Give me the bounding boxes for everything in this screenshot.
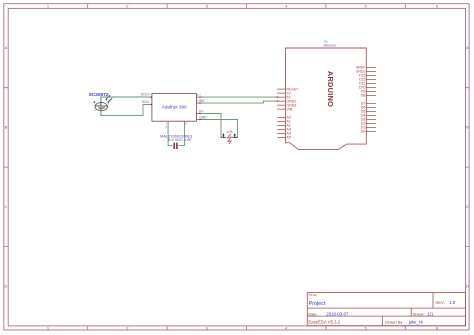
- svg-text:DCin-: DCin-: [142, 100, 150, 104]
- svg-text:D0: D0: [361, 130, 366, 134]
- svg-text:GND: GND: [199, 115, 207, 119]
- svg-text:Drawn By:: Drawn By:: [385, 320, 403, 325]
- svg-text:ARDUINO: ARDUINO: [326, 71, 335, 107]
- svg-text:C: C: [466, 204, 469, 209]
- svg-text:Adafruit 390: Adafruit 390: [162, 105, 187, 110]
- svg-text:1.0: 1.0: [449, 300, 455, 305]
- svg-text:B: B: [5, 125, 8, 130]
- svg-text:D: D: [5, 283, 8, 288]
- svg-text:C: C: [5, 204, 8, 209]
- svg-text:Project: Project: [309, 301, 326, 307]
- svg-text:DCin/+: DCin/+: [141, 93, 151, 97]
- svg-text:jake_cs: jake_cs: [408, 320, 423, 325]
- svg-text:1/1: 1/1: [428, 311, 434, 316]
- svg-text:A: A: [5, 45, 8, 50]
- svg-text:GND: GND: [197, 99, 205, 103]
- svg-text:EasyEDA V5.3.2: EasyEDA V5.3.2: [308, 320, 340, 325]
- svg-text:VIN: VIN: [287, 107, 293, 111]
- svg-text:A: A: [466, 45, 469, 50]
- svg-text:A5: A5: [287, 136, 291, 140]
- svg-text:TITLE:: TITLE:: [308, 293, 317, 297]
- svg-text:LPs: LPs: [227, 130, 233, 134]
- svg-text:Sheet:: Sheet:: [413, 311, 425, 316]
- svg-text:REV:: REV:: [436, 300, 445, 305]
- svg-text:L+: L+: [197, 93, 201, 97]
- svg-text:D8: D8: [361, 94, 366, 98]
- svg-text:8.4 VDC 1.5F: 8.4 VDC 1.5F: [168, 137, 192, 142]
- svg-text:D: D: [466, 283, 469, 288]
- svg-text:ARDUINO: ARDUINO: [324, 43, 337, 47]
- svg-text:Date:: Date:: [308, 312, 317, 316]
- svg-text:R+: R+: [199, 109, 203, 113]
- svg-text:B: B: [466, 125, 469, 130]
- svg-text:U: U: [185, 121, 187, 125]
- svg-text:2018-03-07: 2018-03-07: [326, 311, 349, 316]
- svg-text:U: U: [165, 124, 167, 128]
